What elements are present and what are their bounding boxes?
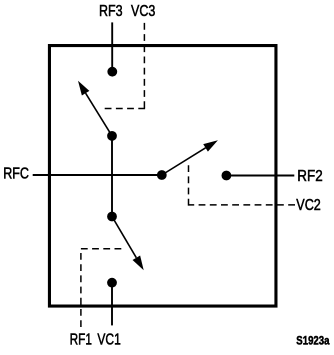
wire RF2 port lead (226, 175, 294, 177)
wire RF1 port lead (111, 283, 113, 326)
switch arm SW2 arrowhead (203, 140, 218, 151)
wire RF3 port lead (111, 22, 113, 71)
svg-text:S1923a: S1923a (296, 334, 329, 348)
wire VC1 control line (dashed) vertical (80, 249, 82, 327)
svg-text:VC3: VC3 (131, 3, 155, 20)
node RF1 terminal dot (107, 278, 117, 288)
node RF2 terminal dot (222, 171, 232, 181)
node RF3 terminal dot (107, 67, 117, 77)
svg-text:VC2: VC2 (296, 197, 321, 214)
node switch pivot SW2 (157, 170, 167, 180)
wire RFC common lead (33, 174, 162, 176)
svg-text:RF1: RF1 (70, 332, 92, 349)
wire VC2 control line (dashed) vertical (188, 165, 190, 206)
wire common pole vertical (111, 136, 113, 217)
switch arm SW1 shaft (112, 217, 136, 258)
svg-text:VC1: VC1 (97, 332, 121, 349)
switch arm SW1 arrowhead (133, 255, 144, 270)
switch arm SW2 shaft (162, 148, 206, 175)
node switch pivot SW1 (107, 212, 117, 222)
node switch pivot SW3 (107, 131, 117, 141)
wire VC3 control line (dashed) horizontal (103, 108, 145, 110)
wire VC2 control line (dashed) horizontal (189, 204, 296, 206)
wire VC3 control line (dashed) vertical (143, 23, 145, 109)
svg-text:RF3: RF3 (99, 3, 123, 20)
switch arm SW3 arrowhead (78, 81, 89, 96)
svg-text:RF2: RF2 (297, 168, 322, 185)
wire VC1 control line (dashed) horizontal (81, 248, 122, 250)
switch arm SW3 shaft (86, 93, 112, 136)
svg-text:RFC: RFC (3, 166, 29, 183)
IC package outline (49, 46, 276, 307)
